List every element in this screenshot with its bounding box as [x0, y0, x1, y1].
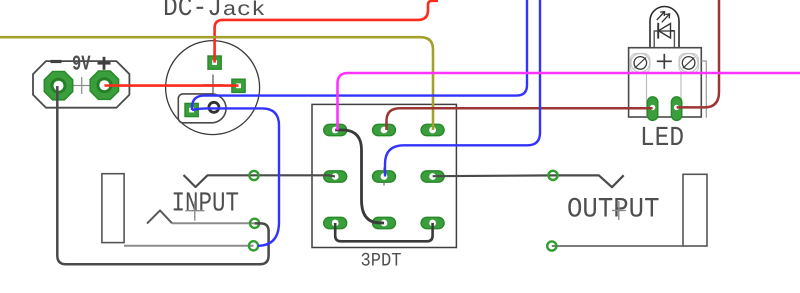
- wire battery negative to input ring (black): [57, 86, 268, 264]
- output sleeve wire: [552, 245, 683, 247]
- switch pad lug8: [373, 217, 396, 228]
- input sleeve pad: [249, 241, 258, 250]
- input ring wire: [172, 222, 255, 224]
- LED bezel halo left: [631, 54, 650, 73]
- battery origin cross: [73, 77, 91, 94]
- LED bezel outline: [629, 48, 702, 117]
- svg-text:3PDT: 3PDT: [361, 249, 402, 271]
- LED origin cross: [657, 54, 672, 69]
- svg-text:INPUT: INPUT: [172, 189, 240, 220]
- input jack body: [102, 174, 124, 243]
- output sleeve pad: [547, 241, 556, 250]
- switch pad lug6: [421, 171, 444, 182]
- battery pad positive: [90, 71, 118, 99]
- LED pad anode: [671, 97, 681, 121]
- battery clip BT1 outline: [33, 61, 129, 108]
- wire switch lug2 to LED cathode (dark red): [387, 108, 653, 130]
- output origin cross: [612, 201, 626, 220]
- LED dome outline: [650, 7, 679, 48]
- battery pad negative: [44, 72, 72, 100]
- LED bezel washer left: [630, 54, 650, 74]
- switch pad lug5: [373, 171, 396, 182]
- 3PDT switch S1 body outline: [312, 104, 456, 247]
- DC jack pad ground: [185, 103, 198, 116]
- switch pad lug3: [421, 124, 444, 135]
- DC jack origin cross: [203, 75, 224, 96]
- battery plus sign: [98, 57, 111, 70]
- switch pad lug4: [324, 171, 347, 182]
- switch pad lug9: [421, 217, 444, 228]
- switch pad lug2: [373, 124, 396, 135]
- DC jack pad top: [208, 56, 221, 69]
- LED bezel side tab: [701, 61, 706, 118]
- LED emission arrows: [657, 12, 670, 23]
- switch origin cross: [375, 168, 393, 186]
- LED diode symbol: [658, 23, 674, 39]
- input origin cross: [185, 201, 204, 221]
- input tip contact and wire to switch lug4: [184, 175, 336, 187]
- wire switch jumper lug7 to lug9 (black): [335, 223, 432, 241]
- DC jack center pin ring: [209, 102, 219, 112]
- input tip pad: [249, 171, 258, 180]
- output tip wire from switch lug6 with contact: [433, 175, 624, 187]
- LED pad cathode: [647, 97, 657, 121]
- wire battery positive to DC jack (red): [104, 84, 238, 87]
- input ring pad: [250, 219, 259, 228]
- svg-text:LED: LED: [640, 123, 684, 154]
- wire LED anode to top right (dark red): [677, 0, 719, 107]
- LED screw circle right: [682, 57, 695, 70]
- input ring contact: [147, 210, 172, 223]
- wire ground bus left to switch lug3 (olive): [0, 37, 433, 130]
- wire switch jumper lug1 to lug8 (black): [335, 130, 384, 223]
- switch pad lug1: [324, 124, 347, 135]
- LED body rect: [654, 31, 674, 48]
- LED bezel washer right: [679, 54, 699, 74]
- wire magenta right edge to switch lug1: [338, 73, 800, 130]
- LED screw circle left: [634, 57, 647, 70]
- DC jack pad right: [232, 79, 245, 92]
- battery minus sign: [51, 60, 62, 63]
- svg-text:9V: 9V: [72, 54, 91, 77]
- wire top x540 to switch lug5 (blue): [385, 0, 540, 177]
- input sleeve wire: [124, 245, 254, 247]
- DC jack pin housing rounded rect: [178, 94, 226, 123]
- output jack body: [683, 174, 707, 246]
- svg-text:DC-J: DC-J: [163, 0, 222, 24]
- LED bezel inner lines: [647, 73, 682, 117]
- wire DC jack to top (red): [215, 1, 438, 63]
- DC jack J1 circle outline: [166, 41, 260, 135]
- switch pad lug7: [324, 217, 347, 228]
- LED bezel halo right: [679, 54, 698, 73]
- wire DC jack ground to input sleeve (blue): [192, 108, 279, 245]
- output tip pad: [548, 171, 557, 180]
- wire DC jack ground to top via x527 (blue): [192, 0, 527, 110]
